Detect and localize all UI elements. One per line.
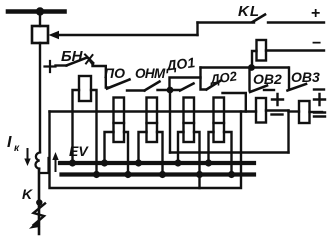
vertical x288 down xyxy=(287,111,289,153)
minus after OV3 xyxy=(314,88,324,90)
svg-text:KL: KL xyxy=(238,3,260,20)
top supply bus (thick) xyxy=(8,9,65,14)
branch B3 vibrator xyxy=(184,98,195,143)
wire PO-ONM xyxy=(127,89,145,91)
wire riser xyxy=(196,23,198,36)
wire box down to CT xyxy=(39,43,41,152)
contact ONM blade xyxy=(145,82,160,91)
bus2 dots xyxy=(93,171,100,178)
branch B0 resistor xyxy=(79,76,91,101)
contact OV2 blade xyxy=(250,86,267,93)
svg-text:БН: БН xyxy=(61,48,84,65)
B1 bracket xyxy=(105,132,129,173)
bus 1 (thick) xyxy=(60,161,254,165)
svg-text:ОВ2: ОВ2 xyxy=(253,71,282,87)
svg-text:ДО2: ДО2 xyxy=(208,68,238,87)
svg-text:EV: EV xyxy=(69,143,89,159)
svg-text:K: K xyxy=(22,186,33,202)
minus marks near R3 xyxy=(314,113,325,117)
OV3 feed xyxy=(288,68,290,89)
R3 right stub xyxy=(310,111,323,113)
CT secondary hook xyxy=(40,158,49,173)
minus near R2 xyxy=(272,113,283,115)
Ik arrow down xyxy=(27,149,29,161)
B3 bracket xyxy=(178,132,200,188)
bus1 dots xyxy=(69,159,76,166)
svg-text:−: − xyxy=(312,35,321,52)
BN output wire xyxy=(89,59,108,88)
svg-text:ДО1: ДО1 xyxy=(164,54,196,74)
svg-text:ПО: ПО xyxy=(104,65,125,81)
B0 bracket xyxy=(73,90,97,173)
wire to KL contact xyxy=(198,21,255,23)
resistor R2 (under OV2) xyxy=(256,98,266,123)
big loop rectangle xyxy=(50,112,242,189)
branch B2 vibrator xyxy=(147,98,158,143)
wire CT down to K xyxy=(38,169,41,234)
resistor R3 (under OV3) xyxy=(299,101,310,123)
plus near R3 xyxy=(314,94,325,105)
branch B4 vibrator xyxy=(214,98,225,143)
node dot B xyxy=(167,87,174,94)
contact DO1 blade xyxy=(180,84,194,91)
plus sign near BN xyxy=(45,61,56,72)
contact PO blade xyxy=(107,80,130,89)
svg-text:ОВ3: ОВ3 xyxy=(291,69,320,85)
contact BN wire xyxy=(56,64,67,66)
contact KL blade xyxy=(253,15,266,23)
node dot A xyxy=(248,64,255,71)
R3 left stub xyxy=(289,110,300,112)
B4 bracket xyxy=(209,132,232,173)
vertical to DO2 xyxy=(201,68,207,90)
junction dot on top bus xyxy=(36,7,44,15)
svg-text:ОНМ: ОНМ xyxy=(135,66,166,81)
contact DO2 blade xyxy=(207,81,221,90)
wire KL to plus xyxy=(268,21,324,23)
main middle rail y111 xyxy=(50,110,257,112)
DO2 output wire xyxy=(223,93,246,112)
plus near R2 xyxy=(272,94,283,105)
contact BN blade xyxy=(67,58,88,66)
B2 bracket xyxy=(139,132,163,173)
current transformer coil arcs xyxy=(35,153,40,169)
arrowhead into box xyxy=(49,31,60,39)
lightning fault arrow at K xyxy=(34,204,46,226)
wire ONM-DO1 xyxy=(158,89,181,91)
svg-text:+: + xyxy=(311,5,320,22)
wire bus to relay box xyxy=(39,14,41,27)
R1 left stub xyxy=(252,51,257,66)
bus 2 (thick) xyxy=(62,172,255,176)
relay coil box KL xyxy=(32,26,48,43)
drop from node B xyxy=(169,90,171,153)
minus after OV2 xyxy=(264,89,274,91)
current direction arrow up xyxy=(55,157,57,171)
OV2 feed xyxy=(248,68,250,91)
feeder line y67 xyxy=(201,66,289,68)
node K dot xyxy=(36,199,42,205)
lower right rail y152 xyxy=(170,151,289,153)
svg-text:к: к xyxy=(14,143,20,154)
R2 right stub xyxy=(266,109,289,111)
minus rail xyxy=(266,49,324,51)
breaker cross on BN xyxy=(85,55,94,64)
DO1 bypass loop xyxy=(170,78,201,91)
resistor R1 (top right) xyxy=(257,40,267,61)
contact OV3 blade xyxy=(288,84,307,91)
wire from box to KL contact (horizontal with arrow) xyxy=(57,34,198,36)
svg-text:I: I xyxy=(7,134,12,151)
branch B1 vibrator xyxy=(114,98,125,143)
